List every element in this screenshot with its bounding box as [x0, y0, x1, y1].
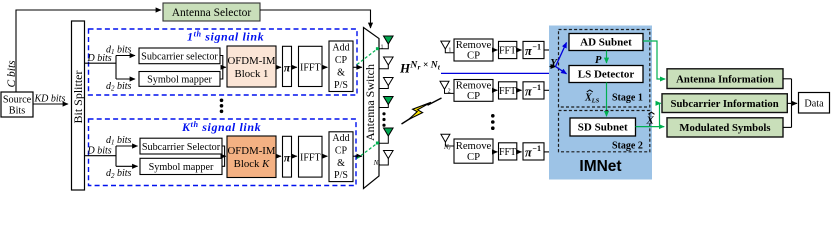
svg-text:2: 2	[448, 89, 451, 95]
svg-text:CP: CP	[335, 146, 348, 157]
wire d1 bits (link K)	[106, 135, 138, 147]
svg-text:Bits: Bits	[9, 106, 25, 117]
wire Y blue collector line	[441, 67, 557, 73]
svg-text:IFFT: IFFT	[300, 152, 321, 163]
wire FFT to pi-1 (row 1)	[517, 49, 522, 51]
svg-text:IMNet: IMNet	[579, 158, 621, 175]
block OFDM-IM Block 1	[227, 46, 276, 87]
wire FFT to pi-1 (row 2)	[517, 89, 522, 91]
svg-text:1: 1	[381, 44, 384, 50]
block IFFT (link K)	[299, 136, 323, 177]
block Remove CP (row 3)	[454, 139, 493, 163]
dashed box Stage 2	[559, 111, 650, 152]
wire d1 bits (link 1)	[106, 44, 135, 56]
wire OFDM-IM 1 to pi 1	[276, 66, 281, 68]
block Remove CP (row 1)	[454, 39, 493, 62]
svg-text:FFT: FFT	[499, 46, 516, 57]
wire d2 bits (link 1)	[106, 79, 135, 93]
svg-text:CP: CP	[335, 55, 348, 66]
svg-text:Antenna Information: Antenna Information	[676, 73, 774, 85]
block Remove CP (row 2)	[454, 79, 493, 102]
svg-text:CP: CP	[467, 50, 480, 62]
wire RemoveCP to FFT (row 2)	[493, 89, 497, 91]
svg-text:d1 bits: d1 bits	[106, 135, 132, 147]
wire Antenna Selector to Antenna Switch	[260, 10, 371, 28]
wire merge bracket into OFDM-IM Block K	[222, 146, 226, 166]
svg-text:KD bits: KD bits	[34, 93, 66, 104]
block SD Subnet	[570, 118, 636, 136]
block IFFT (link 1)	[299, 46, 323, 86]
wire KD bits: Source Bits to Bit Splitter	[33, 93, 68, 104]
block FFT (row 3)	[499, 143, 517, 160]
node Y and blue input arrows	[550, 43, 567, 74]
svg-text:HNr × Nt: HNr × Nt	[399, 60, 441, 75]
svg-text:Block 1: Block 1	[235, 68, 269, 80]
svg-text:Symbol mapper: Symbol mapper	[149, 162, 214, 173]
svg-text:X: X	[646, 115, 655, 127]
green dashed selection wire link1	[357, 50, 377, 65]
block Subcarrier Information	[662, 94, 787, 113]
wire d2 bits (link K)	[106, 166, 138, 180]
block LS Detector	[569, 66, 643, 83]
wire SD Subnet output X	[636, 103, 665, 126]
svg-text:&: &	[337, 158, 345, 169]
wire D bits (link 1)	[85, 53, 116, 64]
wire P: AD Subnet to LS Detector	[595, 51, 607, 67]
svg-text:−1: −1	[532, 43, 541, 52]
wire LS Detector to SD Subnet	[606, 83, 608, 117]
svg-text:Subcarrier selector: Subcarrier selector	[141, 51, 218, 62]
label X estimate	[646, 112, 655, 126]
svg-text:OFDM-IM: OFDM-IM	[228, 145, 276, 157]
block Modulated Symbols	[667, 118, 783, 137]
svg-text:IFFT: IFFT	[300, 62, 321, 73]
wire RemoveCP to FFT (row 3)	[493, 151, 497, 153]
svg-text:Source: Source	[3, 95, 32, 106]
green dashed selection wire linkK	[357, 144, 377, 159]
svg-text:D bits: D bits	[87, 146, 112, 157]
block Antenna Information	[667, 69, 783, 89]
svg-text:Data: Data	[804, 98, 824, 109]
RX dots	[491, 114, 495, 130]
block Antenna Switch	[363, 28, 379, 189]
wire merge bracket into OFDM-IM Block 1	[220, 56, 226, 80]
lightning bolt	[402, 98, 442, 124]
svg-text:P/S: P/S	[334, 80, 348, 91]
svg-text:Bit Splitter: Bit Splitter	[71, 70, 85, 123]
block Subcarrier Selector (link K)	[140, 138, 222, 154]
block deinterleaver pi-1 (row 3)	[523, 143, 544, 160]
TX antenna 1 (selected, green)	[379, 36, 393, 50]
wire pi-1 out (row 2)	[544, 89, 550, 91]
svg-text:Subcarrier Information: Subcarrier Information	[671, 98, 779, 110]
svg-text:OFDM-IM: OFDM-IM	[228, 55, 276, 67]
block FFT (row 2)	[499, 82, 517, 99]
block Add CP & P/S (link 1)	[329, 41, 353, 92]
RX antenna 1	[441, 41, 454, 53]
TX antenna 2	[379, 57, 393, 69]
block deinterleaver pi-1 (row 2)	[523, 82, 544, 99]
wire OFDM-IM K to pi K	[276, 155, 281, 157]
wire split node (link 1)	[115, 56, 117, 80]
svg-text:π: π	[284, 60, 291, 74]
svg-text:1th signal link: 1th signal link	[187, 30, 264, 44]
block Add CP & P/S (link K)	[329, 132, 353, 182]
svg-text:SD Subnet: SD Subnet	[578, 122, 628, 134]
svg-text:FFT: FFT	[499, 86, 516, 97]
vertical dots between links	[220, 99, 224, 114]
svg-text:C bits: C bits	[6, 60, 18, 88]
svg-text:Stage 1: Stage 1	[612, 92, 643, 103]
svg-text:Stage 2: Stage 2	[612, 141, 643, 152]
svg-text:Antenna Switch: Antenna Switch	[363, 64, 377, 141]
svg-text:P/S: P/S	[334, 170, 348, 181]
svg-text:Nr: Nr	[443, 144, 452, 152]
RX antenna 2	[440, 81, 454, 94]
svg-text:d1 bits: d1 bits	[106, 44, 132, 56]
wire RemoveCP to FFT (row 1)	[493, 49, 497, 51]
block Antenna Selector	[163, 3, 260, 21]
block Source Bits	[1, 92, 33, 117]
wire FFT to pi-1 (row 3)	[517, 151, 522, 153]
svg-text:LS Detector: LS Detector	[578, 69, 635, 81]
block FFT (row 1)	[499, 41, 517, 58]
svg-text:Antenna Selector: Antenna Selector	[172, 7, 252, 19]
svg-text:−1: −1	[532, 83, 541, 92]
wire C bits feedback from Source Bits up to Antenna Selector	[6, 10, 161, 92]
wire pi K to IFFT K	[292, 155, 297, 157]
wire IFFT 1 to Add CP 1	[322, 66, 327, 68]
block OFDM-IM Block K	[227, 136, 276, 178]
dashed box 1st signal link	[89, 29, 358, 95]
IMNet shaded region	[549, 26, 652, 180]
wire IFFT K to Add CP K	[322, 155, 327, 157]
svg-text:d2 bits: d2 bits	[106, 81, 132, 93]
wire pi-1 out (row 1)	[544, 49, 550, 51]
wire pi 1 to IFFT 1	[292, 66, 297, 68]
svg-text:π: π	[284, 150, 291, 164]
svg-text:Block K: Block K	[234, 158, 271, 170]
svg-text:Remove: Remove	[456, 140, 492, 152]
TX antenna 4 (selected, green)	[379, 97, 393, 108]
svg-text:Add: Add	[332, 43, 349, 54]
wire pi-1 out (row 3)	[544, 151, 550, 153]
svg-text:FFT: FFT	[499, 147, 516, 158]
wire split node (link K)	[115, 146, 117, 166]
block AD Subnet	[569, 34, 643, 51]
svg-text:d2 bits: d2 bits	[106, 168, 132, 180]
wire merge bracket into Data	[783, 79, 797, 128]
svg-text:−1: −1	[532, 144, 541, 153]
svg-text:Kth signal link: Kth signal link	[181, 120, 261, 134]
block interleaver pi (link K)	[283, 136, 292, 177]
block interleaver pi (link 1)	[283, 46, 292, 86]
svg-text:P: P	[595, 55, 602, 66]
svg-text:Subcarrier Selector: Subcarrier Selector	[142, 142, 221, 153]
svg-text:&: &	[337, 68, 345, 79]
svg-text:Symbol mapper: Symbol mapper	[147, 74, 212, 85]
TX antenna 3	[379, 78, 393, 89]
TX antenna 5 (selected, green)	[379, 128, 393, 143]
RX antenna Nr	[441, 134, 454, 152]
block Subcarrier selector (link 1)	[139, 48, 220, 64]
TX antenna dots	[382, 112, 385, 127]
dashed box Kth signal link	[89, 119, 357, 186]
block Symbol mapper (link K)	[140, 158, 222, 174]
wire D bits (link K)	[85, 146, 116, 157]
svg-text:CP: CP	[467, 90, 480, 102]
block Bit Splitter	[71, 21, 85, 190]
wire Add CP K to switch	[353, 155, 362, 157]
block deinterleaver pi-1 (row 1)	[523, 41, 544, 58]
wire Add CP 1 to switch	[353, 66, 362, 68]
TX antenna Nt	[373, 151, 394, 169]
dashed box Stage 1	[559, 30, 650, 108]
svg-text:AD Subnet: AD Subnet	[580, 37, 632, 49]
svg-text:Modulated Symbols: Modulated Symbols	[679, 122, 770, 134]
svg-text:1: 1	[448, 48, 451, 54]
block Data	[799, 93, 830, 114]
svg-text:CP: CP	[467, 151, 480, 163]
wire AD Subnet to Antenna Information	[643, 41, 665, 79]
svg-text:Add: Add	[332, 133, 349, 144]
block Symbol mapper (link 1)	[139, 72, 220, 87]
label X_LS estimate	[584, 90, 600, 105]
